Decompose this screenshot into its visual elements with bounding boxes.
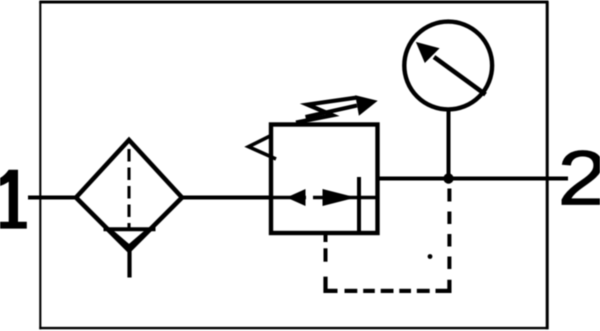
regulator U1 body box [271,125,378,234]
regulator valve seat bar [357,177,361,233]
pilot control dashed line: bottom dash 1 [345,289,358,293]
regulator relief vent triangle [249,136,277,160]
pilot control dashed line: riser dash c [447,212,451,225]
gauge needle shaft [434,57,486,95]
wire: filter outlet to regulator inlet [182,196,271,200]
regulator internal flow line right segment [313,196,378,200]
frame border right [546,2,549,330]
pilot control dashed line: bottom-left corner dash [326,277,338,291]
port label 1 [0,170,27,229]
regulator adjustment spring [296,98,356,123]
pilot control dashed line: bottom-right corner dash [436,280,450,291]
stray speck artifact [428,254,433,259]
regulator internal flow line left segment [271,196,306,200]
pressure gauge G1 dial [404,22,492,110]
pilot control dashed line: riser dash b [447,234,451,247]
frame border bottom [39,327,548,329]
pilot control dashed line: drop nub below regulator [324,235,328,242]
filter F1 diamond body [76,140,182,251]
pilot control dashed line: riser dash a [447,257,451,270]
frame border top [39,1,548,4]
pilot control dashed line: riser dash d [447,189,451,202]
regulator adjustment arrowhead [355,95,377,116]
water separator collector triangle [112,232,147,247]
regulator right flow arrowhead [323,189,357,206]
wire: regulator outlet to port 2 [378,177,569,181]
drain stub [127,251,131,278]
pilot control dashed line: bottom dash 3 [381,289,394,293]
wire: gauge drop line [447,111,451,179]
regulator left flow arrowhead [287,189,306,206]
wire: port 1 line from label to filter inlet [28,196,77,200]
water separator baffle line [104,227,156,231]
pilot control dashed line: bottom dash 2 [363,289,375,293]
gauge needle arrowhead [416,42,440,63]
svg-text:2: 2 [558,134,600,221]
frame border left [39,2,41,330]
pilot control dashed line: drop dash [324,248,328,261]
filter dashed element line [127,149,130,228]
regulator adjustment arrow shaft [306,106,358,118]
pilot control dashed line: bottom dash 5 [417,289,430,293]
node junction dot [443,173,453,183]
pilot control dashed line: bottom dash 4 [399,289,411,293]
